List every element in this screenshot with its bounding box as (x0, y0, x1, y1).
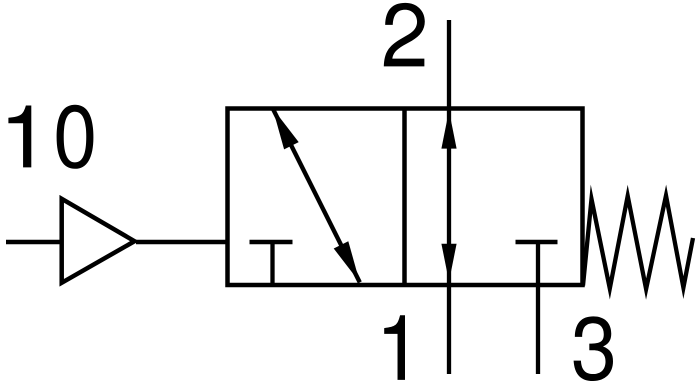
valve body outline (two switching positions) (228, 109, 583, 286)
return spring (right side) (583, 196, 693, 290)
wire: port 2 connection line through valve to port 1 (447, 20, 451, 374)
blocked port T symbol, right position (port 3 closed) (516, 240, 558, 245)
arrowhead upper-left of diagonal flow path (273, 108, 299, 149)
flow path arrow (diagonal, left position) shaft (273, 108, 360, 282)
wire: pilot signal input line (port 10) (6, 240, 62, 244)
label port 1 (pressure supply) (384, 315, 405, 380)
arrowhead lower-right of diagonal flow path (334, 241, 360, 282)
label "10" digit "0" (pilot port 10) (57, 105, 94, 169)
arrowhead up (flow path 1 to 2, right position) (441, 111, 456, 149)
divider between left and right valve position (402, 109, 407, 286)
wire: pilot to valve body (136, 240, 228, 244)
label port 2 (outlet) (384, 3, 425, 66)
blocked port T symbol, left position: crossbar (250, 240, 293, 245)
label port 3 (exhaust) (574, 316, 613, 381)
label "10" digit "1" (pilot port 10) (8, 105, 31, 167)
wire: port 3 line from T stem down out of valve (536, 242, 540, 374)
blocked port T symbol, left position: stem (270, 242, 274, 285)
pneumatic pilot actuator triangle (62, 199, 135, 283)
arrowhead down (flow path 1 to 2, right position) (441, 244, 456, 282)
